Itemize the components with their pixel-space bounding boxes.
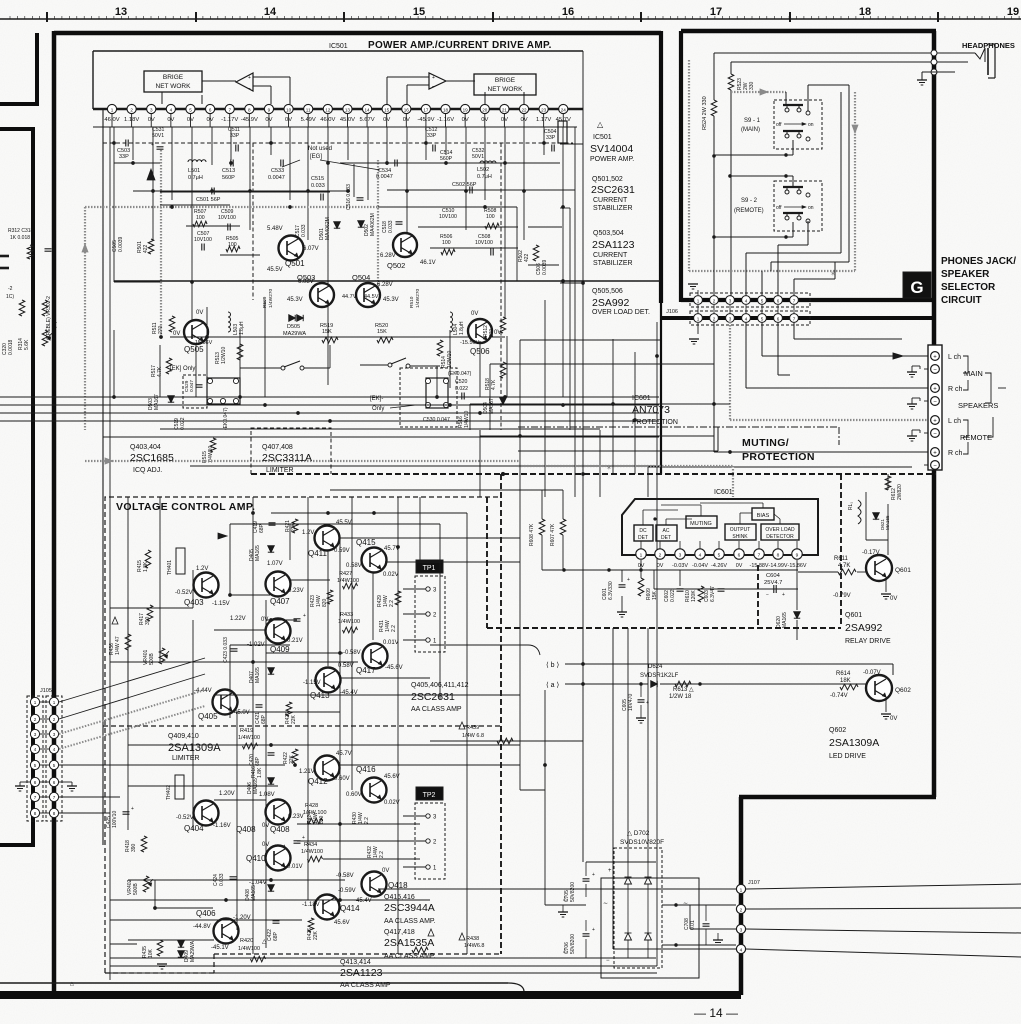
svg-text:3: 3 (53, 732, 56, 737)
svg-text:6.28V: 6.28V (380, 253, 396, 259)
svg-text:15: 15 (413, 6, 425, 18)
svg-text:CIRCUIT: CIRCUIT (941, 295, 982, 306)
svg-text:-45.1V: -45.1V (211, 945, 229, 951)
svg-text:2SA1309A: 2SA1309A (829, 737, 879, 749)
svg-text:1/4W 47: 1/4W 47 (115, 636, 121, 655)
svg-text:OVER LOAD: OVER LOAD (765, 527, 795, 533)
svg-text:Q601: Q601 (895, 567, 911, 574)
svg-text:14: 14 (264, 6, 277, 18)
svg-text:+: + (302, 835, 305, 841)
svg-text:7: 7 (34, 795, 37, 800)
svg-text:R608 47K: R608 47K (529, 523, 535, 546)
svg-text:LIMITER: LIMITER (266, 467, 294, 474)
svg-text:MA165: MA165 (255, 667, 261, 683)
svg-text:SV14004: SV14004 (590, 143, 633, 155)
svg-text:6.07V: 6.07V (303, 246, 319, 252)
svg-text:560P: 560P (222, 175, 235, 181)
svg-text:422: 422 (524, 253, 530, 262)
svg-text:5: 5 (718, 553, 721, 559)
svg-text:D505: D505 (287, 324, 300, 330)
svg-text:AA CLASS AMP: AA CLASS AMP (340, 982, 391, 989)
svg-text:-44.8V: -44.8V (193, 924, 211, 930)
svg-text:0.033: 0.033 (311, 183, 325, 189)
svg-text:DET: DET (638, 535, 648, 541)
svg-text:17: 17 (423, 108, 429, 113)
svg-text:0.02V: 0.02V (384, 800, 400, 806)
svg-text:10V100: 10V100 (194, 237, 212, 243)
svg-text:on: on (808, 205, 814, 211)
svg-text:4: 4 (170, 108, 173, 113)
svg-text:AA CLASS AMP.: AA CLASS AMP. (384, 953, 436, 960)
svg-text:7: 7 (53, 795, 56, 800)
svg-text:J106: J106 (666, 309, 678, 315)
svg-text:1/4W100: 1/4W100 (338, 619, 360, 625)
svg-text:+: + (432, 75, 435, 81)
svg-text:0.01: 0.01 (690, 920, 696, 930)
svg-text:4: 4 (745, 299, 748, 304)
svg-text:33P: 33P (230, 133, 240, 139)
svg-text:RELAY DRIVE: RELAY DRIVE (845, 638, 891, 645)
svg-text:1/4W100: 1/4W100 (238, 735, 260, 741)
svg-text:270: 270 (489, 328, 495, 337)
svg-text:STABILIZER: STABILIZER (593, 260, 633, 267)
svg-text:2SA992: 2SA992 (845, 622, 883, 634)
svg-text:2SA992: 2SA992 (592, 297, 630, 309)
svg-text:POWER AMP.: POWER AMP. (590, 156, 634, 163)
svg-text:PROTECTION: PROTECTION (742, 451, 815, 463)
svg-text:R312 C318: R312 C318 (8, 228, 34, 234)
svg-text:390: 390 (131, 843, 137, 852)
svg-text:(MAIN): (MAIN) (741, 127, 760, 133)
svg-text:[EG]: [EG] (310, 154, 322, 160)
svg-text:-0.52V: -0.52V (175, 590, 193, 596)
svg-text:100K(C): 100K(C) (52, 321, 58, 340)
svg-text:7: 7 (793, 317, 796, 322)
svg-text:S9 - 2: S9 - 2 (741, 198, 758, 204)
svg-text:6: 6 (777, 299, 780, 304)
svg-text:R ch: R ch (948, 386, 963, 393)
svg-text:120K: 120K (691, 590, 697, 602)
svg-text:6.08V: 6.08V (298, 279, 314, 285)
svg-text:44.5V: 44.5V (364, 294, 379, 300)
svg-text:R614: R614 (836, 671, 851, 677)
svg-text:C501 56P: C501 56P (196, 197, 221, 203)
svg-text:−: − (933, 463, 937, 469)
svg-text:LED DRIVE: LED DRIVE (829, 753, 866, 760)
svg-text:45.3V: 45.3V (383, 297, 399, 303)
svg-text:OVER LOAD DET.: OVER LOAD DET. (592, 309, 650, 316)
svg-text:R420: R420 (240, 938, 253, 944)
svg-text:SVDSR1K2LF: SVDSR1K2LF (640, 673, 679, 679)
svg-text:2W820: 2W820 (897, 484, 903, 500)
svg-text:100: 100 (196, 215, 205, 221)
svg-text:Q409,410: Q409,410 (168, 733, 199, 740)
svg-text:2: 2 (713, 299, 716, 304)
svg-text:15K: 15K (377, 329, 387, 335)
svg-text:1: 1 (640, 553, 643, 559)
svg-text:+: + (303, 613, 306, 619)
svg-text:2SC1685: 2SC1685 (130, 452, 174, 464)
svg-text:1.20V: 1.20V (219, 791, 235, 797)
svg-text:45.6V: 45.6V (334, 920, 350, 926)
svg-text:R438: R438 (466, 936, 479, 942)
svg-text:1: 1 (53, 700, 56, 705)
svg-text:4: 4 (34, 747, 37, 752)
svg-text:Q505,506: Q505,506 (592, 288, 623, 295)
svg-text:0V: 0V (196, 310, 203, 316)
svg-text:Q412: Q412 (308, 777, 328, 786)
svg-text:2SA1309A: 2SA1309A (168, 742, 221, 754)
svg-text:13: 13 (345, 108, 351, 113)
svg-text:1.07V: 1.07V (267, 561, 283, 567)
svg-text:-0.79V: -0.79V (833, 593, 851, 599)
svg-text:0.23V: 0.23V (288, 814, 304, 820)
svg-text:C513: C513 (222, 168, 235, 174)
svg-text:0.033: 0.033 (388, 220, 394, 233)
svg-text:−: − (933, 367, 937, 373)
svg-text:MUTING: MUTING (690, 521, 712, 527)
svg-text:Q501,502: Q501,502 (592, 176, 623, 183)
svg-text:1/4W 6.8: 1/4W 6.8 (462, 733, 484, 739)
svg-text:TH402: TH402 (166, 785, 172, 800)
svg-text:+: + (151, 142, 154, 148)
svg-text:0V: 0V (736, 563, 743, 569)
svg-text:18: 18 (859, 6, 871, 18)
svg-text:+: + (248, 75, 251, 81)
svg-text:15: 15 (384, 108, 390, 113)
svg-text:2.2: 2.2 (389, 600, 395, 607)
svg-text:+: + (782, 592, 785, 598)
svg-text:C516 0.033: C516 0.033 (346, 184, 352, 210)
svg-text:REMOTE: REMOTE (960, 433, 992, 442)
svg-text:330: 330 (749, 81, 755, 90)
svg-text:44.7V: 44.7V (342, 294, 357, 300)
svg-text:△: △ (70, 981, 74, 987)
svg-text:2SC3944A: 2SC3944A (384, 902, 435, 914)
svg-text:Q406: Q406 (196, 909, 216, 918)
svg-text:POWER AMP./CURRENT DRIVE AMP.: POWER AMP./CURRENT DRIVE AMP. (368, 40, 552, 51)
svg-text:68P: 68P (259, 523, 265, 533)
svg-text:C423 0.033: C423 0.033 (223, 637, 229, 663)
svg-text:2: 2 (34, 717, 37, 722)
svg-text:S9 - 1: S9 - 1 (744, 118, 761, 124)
svg-text:-0.58V: -0.58V (336, 873, 354, 879)
svg-text:422: 422 (143, 244, 149, 253)
svg-text:6: 6 (777, 317, 780, 322)
svg-text:MA165: MA165 (885, 515, 890, 530)
svg-text:R ch: R ch (948, 450, 963, 457)
svg-text:Q407,408: Q407,408 (262, 444, 293, 451)
svg-text:1: 1 (697, 317, 700, 322)
svg-text:⟨ a ⟩: ⟨ a ⟩ (546, 681, 560, 689)
svg-text:1.8K: 1.8K (143, 561, 149, 572)
svg-text:PHONES JACK/: PHONES JACK/ (941, 256, 1016, 267)
svg-text:∼: ∼ (603, 901, 608, 907)
svg-text:3: 3 (34, 732, 37, 737)
svg-text:18: 18 (443, 108, 449, 113)
svg-text:Q414: Q414 (340, 904, 360, 913)
svg-text:1/4W100: 1/4W100 (301, 849, 323, 855)
svg-text:1/4W270: 1/4W270 (415, 288, 421, 308)
svg-text:22K: 22K (291, 714, 297, 724)
svg-text:0.59V: 0.59V (334, 548, 350, 554)
svg-text:AC: AC (663, 528, 670, 534)
svg-text:9: 9 (268, 108, 271, 113)
svg-text:6.3V47: 6.3V47 (710, 586, 716, 602)
svg-text:Q415: Q415 (356, 538, 376, 547)
svg-text:45.5V: 45.5V (336, 520, 352, 526)
svg-text:L ch: L ch (948, 354, 961, 361)
svg-text:-45.0V: -45.0V (232, 710, 250, 716)
svg-text:— 14 —: — 14 — (694, 1006, 738, 1020)
svg-text:22: 22 (521, 108, 527, 113)
svg-text:6.28V: 6.28V (377, 282, 393, 288)
svg-text:1C): 1C) (6, 294, 14, 300)
svg-text:4: 4 (53, 747, 56, 752)
svg-text:2SC3311A: 2SC3311A (262, 452, 312, 464)
svg-text:0.0047: 0.0047 (376, 174, 393, 180)
svg-text:R434: R434 (304, 842, 317, 848)
svg-text:2.2: 2.2 (364, 817, 370, 824)
svg-text:SPEAKER: SPEAKER (941, 269, 990, 280)
svg-text:18K: 18K (840, 678, 851, 684)
svg-text:MA4062M: MA4062M (370, 213, 376, 236)
svg-text:1: 1 (740, 887, 743, 893)
svg-text:12: 12 (325, 108, 331, 113)
svg-text:25V4.7: 25V4.7 (764, 580, 782, 586)
svg-text:MAIN: MAIN (964, 369, 983, 378)
svg-text:6: 6 (738, 553, 741, 559)
svg-text:46.1V: 46.1V (420, 260, 436, 266)
svg-text:390: 390 (145, 616, 151, 625)
svg-text:L502: L502 (477, 167, 489, 173)
svg-text:Q403: Q403 (184, 598, 204, 607)
svg-text:10V100: 10V100 (439, 214, 457, 220)
svg-text:Q411: Q411 (308, 549, 328, 558)
svg-text:TH401: TH401 (167, 560, 173, 575)
svg-text:21: 21 (502, 108, 508, 113)
svg-text:-45.6V: -45.6V (385, 665, 403, 671)
svg-text:100: 100 (442, 240, 451, 246)
svg-text:33P: 33P (427, 133, 437, 139)
svg-text:0.23V: 0.23V (288, 588, 304, 594)
svg-text:+: + (592, 872, 595, 878)
svg-text:BIAS: BIAS (757, 513, 770, 519)
svg-text:Q413,414: Q413,414 (340, 959, 371, 966)
svg-text:⟨ b ⟩: ⟨ b ⟩ (546, 661, 560, 669)
svg-text:Q601: Q601 (845, 612, 862, 619)
svg-text:△: △ (597, 120, 604, 129)
svg-text:SPEAKERS: SPEAKERS (958, 401, 998, 410)
svg-text:R428: R428 (305, 803, 318, 809)
svg-text:R510: R510 (409, 296, 415, 308)
svg-text:J107: J107 (748, 880, 760, 886)
svg-text:8: 8 (53, 811, 56, 816)
svg-text:+: + (933, 450, 937, 456)
svg-text:10V100: 10V100 (218, 215, 236, 221)
svg-text:C530 0.047: C530 0.047 (423, 417, 450, 423)
svg-text:0.0039: 0.0039 (542, 259, 548, 275)
svg-text:△ D702: △ D702 (627, 830, 650, 837)
svg-text:6.3V330: 6.3V330 (608, 581, 614, 600)
svg-text:CURRENT: CURRENT (593, 252, 628, 259)
svg-text:G: G (910, 278, 923, 297)
svg-text:2: 2 (53, 717, 56, 722)
svg-text:R427: R427 (339, 571, 352, 577)
svg-text:OUTPUT: OUTPUT (730, 527, 751, 533)
svg-text:-2: -2 (8, 286, 13, 292)
svg-text:AN7073: AN7073 (632, 404, 670, 416)
svg-text:off: off (776, 205, 782, 211)
svg-text:8: 8 (777, 553, 780, 559)
svg-text:3: 3 (729, 317, 732, 322)
svg-text:+: + (933, 354, 937, 360)
svg-text:Q417,418: Q417,418 (384, 929, 415, 936)
svg-text:100: 100 (486, 214, 495, 220)
svg-text:0.0047: 0.0047 (268, 175, 285, 181)
svg-text:820: 820 (319, 815, 325, 824)
svg-text:RL₁: RL₁ (848, 502, 854, 510)
svg-text:AA CLASS AMP: AA CLASS AMP (411, 706, 462, 713)
svg-text:IC501: IC501 (593, 134, 612, 141)
svg-text:2: 2 (713, 317, 716, 322)
svg-text:0.022: 0.022 (180, 417, 186, 430)
svg-text:4: 4 (740, 947, 743, 953)
svg-text:Q408: Q408 (270, 825, 290, 834)
svg-text:16: 16 (562, 6, 574, 18)
svg-text:MA29WA: MA29WA (283, 331, 306, 337)
svg-text:4.7K: 4.7K (491, 379, 497, 390)
svg-text:0.60V: 0.60V (346, 792, 362, 798)
svg-text:4: 4 (745, 317, 748, 322)
svg-text:ICQ ADJ.: ICQ ADJ. (133, 467, 162, 474)
svg-text:17: 17 (710, 6, 722, 18)
svg-text:0V: 0V (173, 331, 180, 337)
svg-text:SELECTOR: SELECTOR (941, 282, 996, 293)
svg-text:[EK] Only: [EK] Only (170, 366, 195, 372)
svg-text:D624: D624 (648, 664, 663, 670)
svg-text:5: 5 (53, 763, 56, 768)
svg-text:1/2W 18: 1/2W 18 (669, 694, 692, 700)
svg-text:0V: 0V (471, 311, 478, 317)
svg-text:1.8K: 1.8K (257, 767, 263, 778)
svg-text:3: 3 (150, 108, 153, 113)
svg-text:J105: J105 (40, 688, 52, 694)
svg-text:VOLTAGE CONTROL AMP.: VOLTAGE CONTROL AMP. (116, 501, 255, 513)
svg-text:1: 1 (111, 108, 114, 113)
svg-text:IC601: IC601 (632, 395, 651, 402)
svg-text:L ch: L ch (948, 418, 961, 425)
svg-text:✶: ✶ (606, 464, 612, 472)
svg-text:off: off (776, 122, 782, 128)
svg-text:(EK0.047): (EK0.047) (448, 371, 472, 377)
svg-text:50V1: 50V1 (472, 154, 484, 160)
svg-text:NET WORK: NET WORK (488, 86, 524, 93)
svg-text:R433: R433 (340, 612, 353, 618)
svg-text:4: 4 (699, 553, 702, 559)
svg-text:BRIGE: BRIGE (163, 74, 184, 81)
svg-text:TP2: TP2 (423, 792, 436, 799)
svg-text:MA167: MA167 (154, 394, 160, 410)
svg-text:0V: 0V (890, 596, 897, 602)
svg-text:Q502: Q502 (387, 261, 405, 270)
svg-text:2: 2 (659, 553, 662, 559)
svg-text:4.7K: 4.7K (838, 563, 850, 569)
svg-text:50V8200: 50V8200 (570, 882, 576, 902)
svg-text:24: 24 (561, 108, 567, 113)
svg-text:IC601: IC601 (714, 489, 733, 496)
svg-text:R613 △: R613 △ (673, 687, 694, 693)
svg-text:20: 20 (482, 108, 488, 113)
svg-text:-0.52V: -0.52V (176, 815, 194, 821)
svg-text:10: 10 (286, 108, 292, 113)
svg-text:19: 19 (1007, 6, 1019, 18)
svg-text:STABILIZER: STABILIZER (593, 205, 633, 212)
svg-text:Q503,504: Q503,504 (593, 230, 624, 237)
svg-text:Q602: Q602 (829, 727, 846, 734)
svg-text:+: + (592, 927, 595, 933)
svg-text:on: on (808, 122, 814, 128)
svg-text:5: 5 (761, 317, 764, 322)
svg-text:LIMITER: LIMITER (172, 755, 200, 762)
svg-text:3: 3 (679, 553, 682, 559)
svg-text:C533: C533 (271, 168, 284, 174)
svg-text:7: 7 (758, 553, 761, 559)
svg-text:L501: L501 (188, 168, 200, 174)
svg-text:19: 19 (463, 108, 469, 113)
svg-text:PROTECTION: PROTECTION (632, 419, 678, 426)
svg-text:C515: C515 (311, 176, 324, 182)
svg-text:0V: 0V (657, 563, 664, 569)
svg-text:BRIGE: BRIGE (495, 77, 516, 84)
svg-text:R524 2W 330: R524 2W 330 (702, 96, 708, 130)
svg-text:7: 7 (228, 108, 231, 113)
svg-text:R419: R419 (240, 728, 253, 734)
svg-text:+: + (933, 386, 937, 392)
svg-text:-0.59V: -0.59V (338, 888, 356, 894)
svg-text:−: − (606, 958, 610, 964)
svg-text:22K: 22K (313, 930, 319, 940)
svg-text:-0.01V: -0.01V (285, 864, 303, 870)
svg-text:2.2: 2.2 (391, 625, 397, 632)
svg-text:R607 47K: R607 47K (550, 523, 556, 546)
svg-text:1.8μH: 1.8μH (459, 321, 465, 335)
svg-text:13: 13 (115, 6, 127, 18)
svg-text:DC: DC (639, 528, 647, 534)
svg-text:CURRENT: CURRENT (593, 197, 628, 204)
svg-text:5: 5 (761, 299, 764, 304)
svg-text:Q413: Q413 (310, 691, 330, 700)
svg-text:45.3V: 45.3V (287, 297, 303, 303)
svg-text:+: + (646, 700, 649, 706)
svg-text:−: − (933, 431, 937, 437)
svg-text:0V: 0V (382, 868, 389, 874)
svg-text:TP1: TP1 (423, 565, 436, 572)
svg-text:IC501: IC501 (329, 43, 348, 50)
svg-text:3: 3 (729, 299, 732, 304)
svg-text:Not used: Not used (308, 146, 332, 152)
svg-text:-1.18V: -1.18V (302, 902, 320, 908)
svg-text:-1.15V: -1.15V (303, 680, 321, 686)
svg-text:0.60V: 0.60V (334, 776, 350, 782)
svg-text:+: + (608, 868, 612, 874)
svg-text:-15.88V: -15.88V (750, 563, 769, 569)
svg-text:2: 2 (740, 907, 743, 913)
svg-text:33P: 33P (546, 135, 556, 141)
svg-text:0.7μH: 0.7μH (188, 175, 203, 181)
svg-text:560P: 560P (440, 156, 453, 162)
svg-text:-0.74V: -0.74V (830, 693, 848, 699)
